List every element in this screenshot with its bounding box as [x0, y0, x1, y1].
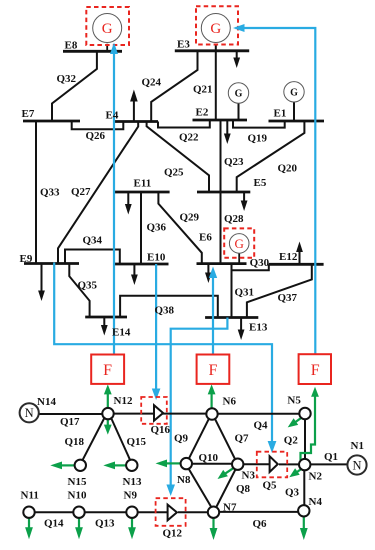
wire Q5 to N2	[279, 463, 300, 465]
wire Q6	[218, 511, 299, 513]
dashed box Q16	[141, 397, 167, 424]
wire Q32	[52, 51, 97, 121]
labels bottom section	[21, 394, 364, 539]
node N11	[23, 507, 34, 518]
cyan wire F2 to E6	[212, 278, 214, 355]
wire Q17	[39, 413, 103, 415]
wire N12 to Q16	[113, 413, 154, 415]
wire N9 to Q12	[137, 511, 168, 513]
svg-text:E8: E8	[65, 39, 78, 51]
bus E2	[193, 119, 248, 122]
svg-text:N6: N6	[223, 395, 237, 407]
svg-text:F: F	[209, 362, 218, 379]
svg-text:Q22: Q22	[179, 131, 199, 143]
green arrow N4 shaft	[303, 517, 305, 529]
generator G2 circle	[201, 14, 230, 43]
node N8	[181, 458, 192, 469]
cyan wire E10 to Q16	[155, 264, 157, 389]
tie switch triangle Q16	[154, 405, 163, 421]
bottom network black wires	[34, 414, 348, 513]
green arrowhead N3 sw	[218, 470, 228, 479]
svg-text:N11: N11	[21, 489, 39, 501]
green arrowhead N5 sw	[288, 418, 299, 427]
svg-text:N1: N1	[351, 440, 364, 452]
dashed box around G1	[86, 7, 129, 45]
svg-text:Q10: Q10	[199, 452, 219, 464]
svg-text:Q17: Q17	[60, 416, 80, 428]
labels top section	[20, 39, 298, 339]
svg-text:F: F	[103, 362, 112, 379]
svg-text:E3: E3	[177, 39, 190, 51]
svg-text:E6: E6	[199, 231, 212, 243]
cyan arrowhead at G2	[233, 24, 245, 32]
gen arrow E12 up	[296, 241, 303, 264]
tie switch triangle Q12	[168, 505, 177, 521]
wire Q36	[140, 192, 142, 264]
green arrow N11 shaft	[28, 518, 30, 528]
node N15	[75, 460, 86, 471]
wire Q37	[247, 264, 312, 317]
wire Q35	[69, 264, 89, 318]
cyan wire E13 to Q12	[171, 318, 228, 486]
svg-text:Q37: Q37	[278, 292, 298, 304]
bus E9	[24, 262, 79, 265]
wire Q20	[237, 121, 305, 192]
svg-text:F: F	[311, 362, 320, 379]
svg-text:Q38: Q38	[155, 304, 175, 316]
svg-text:Q28: Q28	[224, 213, 244, 225]
node N9	[126, 507, 137, 518]
node N10	[73, 507, 84, 518]
svg-text:Q25: Q25	[164, 166, 184, 178]
svg-text:N15: N15	[68, 476, 87, 488]
node N4	[298, 505, 309, 516]
svg-text:N9: N9	[124, 489, 138, 501]
bus E5	[197, 191, 250, 194]
svg-text:N5: N5	[287, 394, 301, 406]
svg-text:E9: E9	[20, 253, 33, 265]
svg-text:Q32: Q32	[57, 73, 77, 85]
cyan arrowhead at Q5	[268, 441, 277, 453]
svg-text:N12: N12	[114, 395, 133, 407]
svg-text:N10: N10	[68, 489, 87, 501]
green arrow N9 shaft	[131, 518, 133, 528]
node N6	[206, 408, 217, 419]
bus E10	[114, 263, 169, 266]
svg-text:E10: E10	[147, 251, 166, 263]
wire Q3	[303, 470, 305, 507]
green arrow N2 sw shaft	[297, 469, 301, 472]
bus E11	[114, 191, 170, 194]
wire Q34	[65, 250, 120, 265]
green arrowhead N13	[103, 462, 115, 470]
svg-text:E11: E11	[134, 178, 152, 190]
svg-text:Q19: Q19	[248, 132, 268, 144]
green arrowhead N12 down	[104, 425, 112, 435]
green arrowhead N11	[25, 527, 33, 539]
wire Q26	[72, 121, 124, 129]
load arrow E11	[125, 192, 132, 215]
svg-text:N13: N13	[123, 476, 142, 488]
svg-text:N2: N2	[309, 470, 323, 482]
wire Q27	[58, 122, 138, 264]
svg-text:Q16: Q16	[151, 424, 171, 436]
svg-text:Q30: Q30	[250, 257, 270, 269]
green arrow N15 shaft	[62, 464, 75, 466]
generator G1 stem	[106, 44, 108, 52]
bus E8	[63, 50, 122, 53]
green arrow N12 down shaft	[107, 419, 109, 425]
bus E7	[23, 120, 80, 123]
node N2	[299, 459, 310, 470]
svg-text:G: G	[290, 87, 298, 98]
bus E3	[175, 49, 249, 52]
cyan arrowhead at G1	[110, 43, 118, 55]
generator G1s stem	[238, 103, 240, 120]
green arrowhead N2 to F3 up	[311, 387, 319, 397]
wire Q8	[216, 469, 236, 508]
feeder box F1	[91, 355, 124, 384]
svg-text:Q7: Q7	[235, 432, 250, 444]
node N7	[208, 507, 219, 518]
svg-text:Q35: Q35	[78, 279, 98, 291]
wire Q19	[233, 120, 285, 128]
svg-text:Q13: Q13	[95, 517, 115, 529]
source N right	[347, 455, 366, 474]
green arrow N8 shaft	[167, 462, 181, 464]
wire Q31	[231, 264, 233, 318]
wire Q10	[191, 463, 233, 465]
cyan wire F1 to G1	[113, 53, 115, 355]
node N13	[126, 460, 137, 471]
svg-text:Q9: Q9	[174, 432, 189, 444]
bus E13	[205, 316, 258, 319]
wire Q9	[189, 419, 210, 460]
svg-text:Q5: Q5	[263, 479, 278, 491]
svg-text:Q36: Q36	[147, 221, 167, 233]
load arrow E5	[241, 192, 248, 211]
dashed box around G3	[224, 228, 254, 257]
green arrowhead N8	[156, 460, 168, 468]
load arrow E10	[131, 264, 138, 285]
svg-text:G: G	[235, 236, 244, 251]
tie switch triangle Q5	[270, 456, 278, 472]
green arrow N3 sw shaft	[225, 468, 233, 474]
generator G1 circle	[93, 14, 122, 43]
wire Q33	[35, 121, 37, 264]
green arrow N7 shaft	[212, 518, 214, 528]
load arrow E9	[38, 264, 45, 302]
svg-text:Q31: Q31	[235, 286, 255, 298]
node N12	[102, 408, 113, 419]
green arrowhead N10	[75, 527, 83, 539]
svg-text:Q34: Q34	[83, 235, 103, 247]
wire Q23 Q28	[220, 120, 222, 264]
bus E1	[269, 120, 325, 123]
wire Q29	[158, 192, 201, 264]
wire Q30	[232, 264, 269, 270]
svg-text:N: N	[25, 406, 34, 420]
green arrowhead N6 up	[208, 384, 216, 394]
green wire N12 to F1	[107, 394, 109, 408]
feeder box F3	[299, 354, 331, 384]
wire Q16 to N6	[163, 413, 208, 415]
bus E14	[85, 316, 127, 319]
svg-text:N: N	[352, 458, 361, 472]
green arrow N10 shaft	[78, 518, 80, 528]
green arrowhead N9	[128, 527, 136, 539]
svg-text:Q18: Q18	[65, 436, 85, 448]
green arrow N13 shaft	[115, 464, 126, 466]
svg-text:E1: E1	[274, 108, 287, 120]
wire N3 to Q5	[243, 463, 270, 465]
svg-text:E5: E5	[254, 177, 267, 189]
green arrow N5 shaft	[296, 418, 302, 422]
wire Q12 to N7	[178, 511, 209, 513]
svg-text:Q15: Q15	[127, 436, 147, 448]
green wires and arrows	[29, 394, 315, 529]
load arrow E3	[233, 51, 240, 68]
svg-text:Q8: Q8	[236, 483, 251, 495]
svg-text:N3: N3	[242, 469, 256, 481]
svg-text:Q1: Q1	[324, 451, 338, 463]
load arrow E6	[205, 264, 212, 283]
svg-text:E2: E2	[196, 106, 209, 118]
load arrow E2	[224, 120, 231, 144]
wire Q25	[147, 122, 209, 193]
svg-text:E12: E12	[279, 251, 298, 263]
svg-text:E13: E13	[249, 321, 268, 333]
svg-text:Q4: Q4	[254, 419, 269, 431]
green arrowhead N15	[50, 462, 62, 470]
generator G2s stem	[293, 102, 295, 121]
svg-text:Q3: Q3	[285, 486, 300, 498]
cyan wires	[54, 28, 315, 485]
node N3	[232, 459, 243, 470]
svg-text:E4: E4	[106, 109, 119, 121]
wire Q1	[310, 463, 348, 465]
dashed box around G2	[196, 6, 238, 44]
svg-text:Q20: Q20	[278, 163, 298, 175]
wire Q38	[120, 296, 218, 318]
wire Q14 Q13	[34, 511, 128, 513]
svg-text:G: G	[210, 21, 221, 37]
load arrows black	[38, 51, 303, 340]
cyan arrowhead at E6	[209, 267, 217, 279]
green wire N6 to F2	[211, 394, 213, 409]
load arrow E14	[101, 317, 108, 336]
wire N8 to N7	[188, 468, 212, 508]
wire Q2	[304, 418, 306, 459]
cyan arrowhead at Q12	[166, 485, 175, 497]
green arrowhead N2 sw	[289, 468, 299, 477]
svg-text:Q23: Q23	[224, 156, 244, 168]
node N5	[299, 408, 310, 419]
svg-text:Q14: Q14	[44, 517, 64, 529]
svg-text:Q21: Q21	[193, 83, 213, 95]
wire Q21 / generator G2 stem	[215, 44, 217, 120]
gen arrow E4 up	[130, 90, 138, 122]
green arrowhead N4	[300, 528, 308, 540]
svg-text:Q24: Q24	[142, 76, 162, 88]
svg-text:G: G	[235, 89, 243, 100]
wire Q15	[111, 418, 130, 460]
green wire N2 to F3	[301, 397, 316, 461]
svg-text:Q12: Q12	[163, 527, 183, 539]
svg-text:Q2: Q2	[284, 434, 299, 446]
wire Q22	[158, 120, 210, 128]
cyan wire E9 to Q5	[54, 263, 272, 442]
svg-text:N8: N8	[177, 474, 191, 486]
bus E4	[114, 120, 158, 123]
svg-text:Q29: Q29	[180, 211, 200, 223]
svg-text:N14: N14	[37, 396, 56, 408]
generator G1s circle	[228, 83, 248, 103]
svg-text:Q27: Q27	[71, 186, 91, 198]
wire Q7	[215, 419, 236, 461]
feeder box F2	[197, 355, 230, 384]
dashed box Q5	[257, 452, 287, 478]
svg-text:G: G	[102, 21, 113, 37]
svg-text:Q33: Q33	[40, 186, 60, 198]
wire Q24	[151, 51, 197, 122]
green arrowhead N7	[210, 528, 218, 540]
generator G2s circle	[284, 82, 304, 102]
generator G3 circle	[229, 234, 249, 254]
svg-text:E7: E7	[22, 108, 35, 120]
svg-text:Q6: Q6	[253, 518, 268, 530]
svg-text:N4: N4	[309, 496, 323, 508]
svg-text:Q26: Q26	[86, 130, 106, 142]
cyan wire F3 to G2	[236, 28, 316, 354]
green arrowhead N12 up	[104, 384, 112, 394]
wire Q4	[217, 413, 300, 415]
dashed box Q12	[156, 498, 186, 526]
load arrow E13	[238, 318, 245, 341]
generator G3 stem	[238, 253, 240, 263]
wire Q18	[83, 418, 105, 461]
svg-text:E14: E14	[112, 326, 131, 338]
source N left	[20, 403, 39, 422]
cyan arrowhead at Q16	[152, 389, 161, 401]
bus E12	[269, 263, 324, 266]
svg-text:N7: N7	[223, 501, 237, 513]
bus E6	[197, 262, 247, 265]
